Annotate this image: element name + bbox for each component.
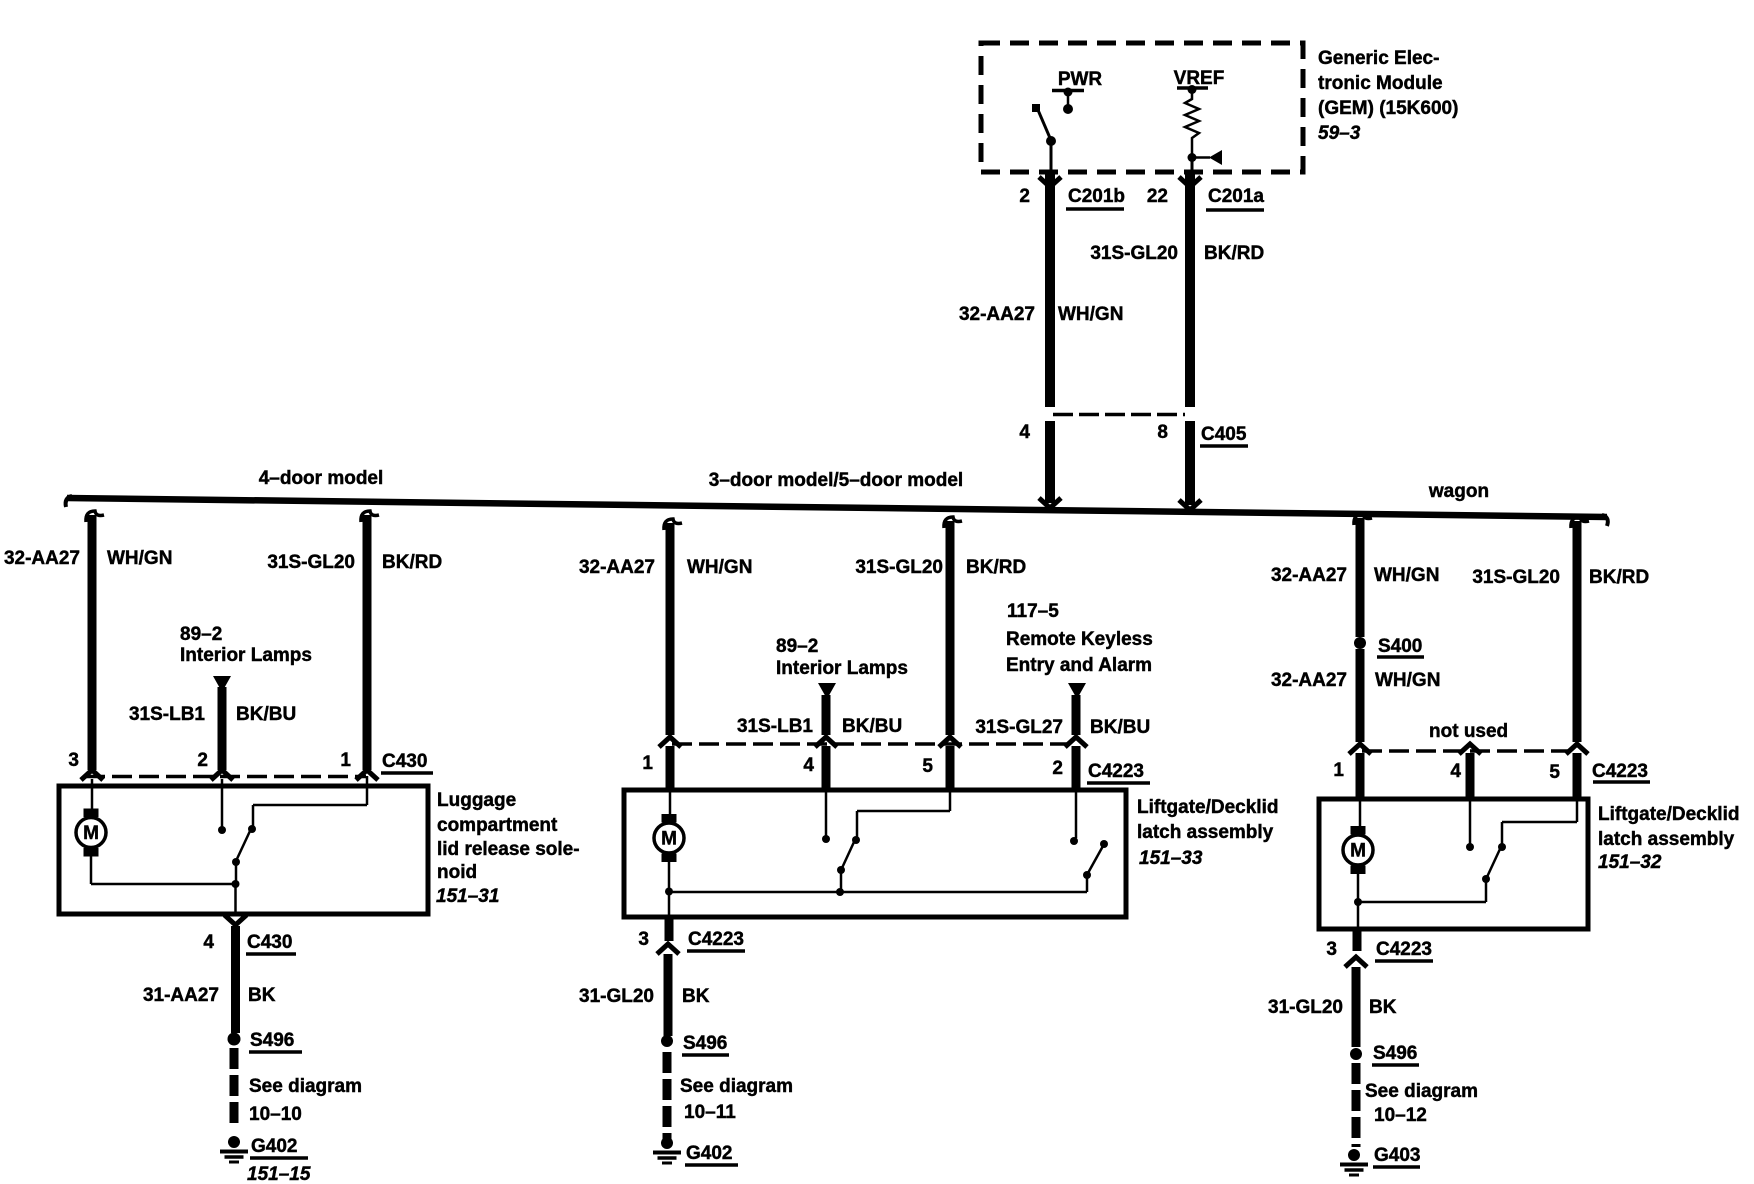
svg-text:C201b: C201b <box>1068 186 1125 207</box>
svg-text:BK: BK <box>1369 997 1397 1018</box>
svg-text:59–3: 59–3 <box>1318 123 1361 144</box>
svg-text:BK: BK <box>682 986 710 1007</box>
svg-text:1: 1 <box>1333 760 1344 781</box>
svg-text:C4223: C4223 <box>1592 761 1648 782</box>
svg-text:31S-GL20: 31S-GL20 <box>1472 567 1560 588</box>
svg-text:31S-GL27: 31S-GL27 <box>975 717 1063 738</box>
svg-text:117–5: 117–5 <box>1007 601 1059 622</box>
svg-text:31-AA27: 31-AA27 <box>143 985 219 1006</box>
svg-text:151–15: 151–15 <box>247 1164 311 1184</box>
svg-text:S496: S496 <box>1373 1043 1417 1064</box>
svg-text:5: 5 <box>1549 762 1560 783</box>
svg-text:3–door model/5–door model: 3–door model/5–door model <box>709 470 963 491</box>
svg-text:10–11: 10–11 <box>684 1102 736 1123</box>
svg-text:BK: BK <box>248 985 276 1006</box>
svg-text:G402: G402 <box>686 1143 732 1164</box>
svg-text:5: 5 <box>922 756 933 777</box>
svg-text:BK/RD: BK/RD <box>966 557 1026 578</box>
svg-text:WH/GN: WH/GN <box>1375 670 1440 691</box>
svg-text:1: 1 <box>642 753 653 774</box>
svg-text:31S-GL20: 31S-GL20 <box>267 552 355 573</box>
svg-text:89–2: 89–2 <box>180 624 222 645</box>
svg-text:BK/RD: BK/RD <box>1204 243 1264 264</box>
svg-text:22: 22 <box>1147 186 1168 207</box>
svg-text:S496: S496 <box>683 1033 727 1054</box>
svg-text:2: 2 <box>197 750 208 771</box>
svg-text:noid: noid <box>437 862 477 883</box>
svg-text:wagon: wagon <box>1428 481 1489 502</box>
svg-text:10–12: 10–12 <box>1374 1105 1427 1126</box>
svg-text:10–10: 10–10 <box>249 1104 302 1125</box>
svg-text:151–31: 151–31 <box>436 886 499 907</box>
svg-text:C201a: C201a <box>1208 186 1264 207</box>
svg-text:C4223: C4223 <box>1088 761 1144 782</box>
svg-text:BK/BU: BK/BU <box>842 716 902 737</box>
svg-text:(GEM) (15K600): (GEM) (15K600) <box>1318 98 1458 119</box>
svg-text:4–door model: 4–door model <box>259 468 384 489</box>
svg-text:WH/GN: WH/GN <box>107 548 172 569</box>
svg-text:WH/GN: WH/GN <box>1058 304 1123 325</box>
svg-text:not used: not used <box>1429 721 1508 742</box>
svg-text:32-AA27: 32-AA27 <box>1271 670 1347 691</box>
svg-text:32-AA27: 32-AA27 <box>579 557 655 578</box>
svg-text:latch assembly: latch assembly <box>1598 829 1735 850</box>
svg-text:lid release sole-: lid release sole- <box>437 839 580 860</box>
svg-text:32-AA27: 32-AA27 <box>959 304 1035 325</box>
svg-text:4: 4 <box>803 755 814 776</box>
svg-text:VREF: VREF <box>1174 68 1225 89</box>
svg-text:Interior Lamps: Interior Lamps <box>180 645 312 666</box>
svg-text:32-AA27: 32-AA27 <box>4 548 80 569</box>
svg-text:latch assembly: latch assembly <box>1137 822 1274 843</box>
svg-text:Luggage: Luggage <box>437 790 516 811</box>
svg-text:31S-LB1: 31S-LB1 <box>129 704 205 725</box>
svg-text:Generic Elec-: Generic Elec- <box>1318 48 1439 69</box>
svg-text:C4223: C4223 <box>1376 939 1432 960</box>
svg-text:3: 3 <box>68 750 79 771</box>
svg-text:See diagram: See diagram <box>249 1076 362 1097</box>
svg-text:See diagram: See diagram <box>680 1076 793 1097</box>
svg-text:See diagram: See diagram <box>1365 1081 1478 1102</box>
svg-text:Entry and Alarm: Entry and Alarm <box>1006 655 1152 676</box>
svg-text:2: 2 <box>1052 758 1063 779</box>
svg-text:32-AA27: 32-AA27 <box>1271 565 1347 586</box>
svg-text:compartment: compartment <box>437 815 558 836</box>
svg-text:C405: C405 <box>1201 424 1247 445</box>
svg-text:WH/GN: WH/GN <box>687 557 752 578</box>
svg-text:3: 3 <box>1326 939 1337 960</box>
svg-text:4: 4 <box>1019 422 1030 443</box>
svg-text:151–32: 151–32 <box>1598 852 1662 873</box>
svg-text:tronic Module: tronic Module <box>1318 73 1443 94</box>
svg-text:G402: G402 <box>251 1136 297 1157</box>
svg-text:PWR: PWR <box>1058 69 1103 90</box>
svg-text:151–33: 151–33 <box>1139 848 1203 869</box>
svg-text:G403: G403 <box>1374 1145 1420 1166</box>
svg-text:31S-GL20: 31S-GL20 <box>1090 243 1178 264</box>
svg-text:C4223: C4223 <box>688 929 744 950</box>
svg-text:Liftgate/Decklid: Liftgate/Decklid <box>1137 797 1278 818</box>
svg-text:31-GL20: 31-GL20 <box>1268 997 1343 1018</box>
svg-text:31S-LB1: 31S-LB1 <box>737 716 813 737</box>
svg-text:C430: C430 <box>247 932 292 953</box>
svg-text:1: 1 <box>340 750 351 771</box>
svg-text:4: 4 <box>1450 761 1461 782</box>
svg-text:C430: C430 <box>382 751 427 772</box>
svg-text:31-GL20: 31-GL20 <box>579 986 654 1007</box>
svg-text:Interior Lamps: Interior Lamps <box>776 658 908 679</box>
svg-text:Remote Keyless: Remote Keyless <box>1006 629 1153 650</box>
svg-text:S400: S400 <box>1378 636 1422 657</box>
svg-text:WH/GN: WH/GN <box>1374 565 1439 586</box>
svg-text:31S-GL20: 31S-GL20 <box>855 557 943 578</box>
svg-text:S496: S496 <box>250 1030 294 1051</box>
svg-text:4: 4 <box>203 932 214 953</box>
svg-text:BK/RD: BK/RD <box>382 552 442 573</box>
svg-text:BK/RD: BK/RD <box>1589 567 1649 588</box>
svg-text:BK/BU: BK/BU <box>236 704 296 725</box>
svg-text:Liftgate/Decklid: Liftgate/Decklid <box>1598 804 1739 825</box>
svg-text:2: 2 <box>1019 186 1030 207</box>
svg-text:89–2: 89–2 <box>776 636 818 657</box>
svg-text:8: 8 <box>1157 422 1168 443</box>
svg-text:3: 3 <box>638 929 649 950</box>
svg-text:BK/BU: BK/BU <box>1090 717 1150 738</box>
